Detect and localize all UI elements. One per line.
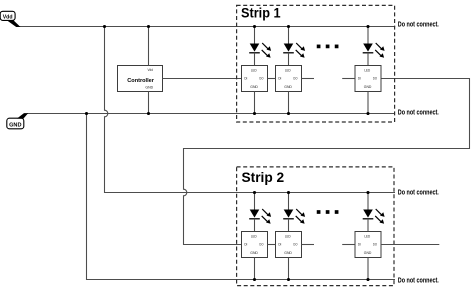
svg-text:GND: GND [364, 251, 372, 255]
svg-text:LED: LED [364, 235, 371, 239]
svg-text:LED: LED [285, 69, 292, 73]
svg-text:GND: GND [9, 122, 21, 128]
svg-text:Strip 1: Strip 1 [241, 5, 281, 21]
svg-text:DI: DI [278, 243, 281, 247]
svg-text:DI: DI [244, 243, 247, 247]
svg-text:Do not connect.: Do not connect. [398, 278, 439, 285]
svg-text:LED: LED [285, 235, 292, 239]
svg-text:GND: GND [284, 251, 292, 255]
svg-text:DI: DI [278, 77, 281, 81]
svg-text:DO: DO [373, 243, 377, 247]
svg-text:Strip 2: Strip 2 [242, 169, 285, 185]
svg-text:GND: GND [250, 251, 258, 255]
svg-text:DO: DO [293, 77, 297, 81]
svg-text:LED: LED [251, 235, 258, 239]
svg-text:Vdd: Vdd [3, 14, 13, 20]
svg-text:GND: GND [145, 85, 153, 89]
svg-text:Do not connect.: Do not connect. [398, 22, 439, 29]
svg-text:DO: DO [293, 243, 297, 247]
svg-text:DI: DI [358, 77, 361, 81]
svg-text:Do not connect.: Do not connect. [398, 190, 439, 197]
svg-text:GND: GND [284, 85, 292, 89]
svg-text:Vdd: Vdd [148, 68, 154, 72]
svg-text:Controller: Controller [127, 78, 154, 84]
svg-text:DI: DI [244, 77, 247, 81]
svg-text:Do not connect.: Do not connect. [398, 109, 439, 116]
svg-text:DO: DO [259, 77, 263, 81]
svg-text:DO: DO [259, 243, 263, 247]
svg-text:LED: LED [251, 69, 258, 73]
svg-text:LED: LED [364, 69, 371, 73]
svg-text:DI: DI [358, 243, 361, 247]
svg-text:DO: DO [373, 77, 377, 81]
svg-text:GND: GND [364, 85, 372, 89]
svg-text:GND: GND [250, 85, 258, 89]
